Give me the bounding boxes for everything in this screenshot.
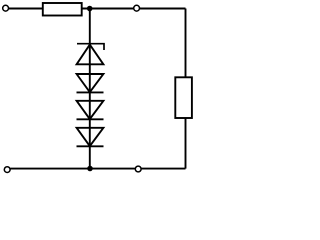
- diode D3 cathode bar: [77, 118, 104, 120]
- wire bottom rail: [10, 168, 185, 170]
- wire top-left terminal to resistor R1: [9, 8, 43, 10]
- terminal circle top-middle: [134, 5, 140, 11]
- terminal circle top-left: [3, 5, 9, 11]
- zener diode D1 triangle (pointing up): [77, 45, 104, 65]
- diode D4 triangle (pointing down): [77, 128, 104, 146]
- junction node top: [87, 6, 93, 12]
- diode D3 triangle (pointing down): [77, 101, 104, 119]
- diode D2 cathode bar: [77, 91, 104, 93]
- resistor R2 (right vertical): [175, 77, 192, 118]
- terminal circle bottom-middle: [135, 166, 141, 172]
- diode D4 cathode bar: [77, 145, 104, 147]
- wire R1 to top-right corner: [82, 8, 186, 10]
- wire R2 down to bottom-right corner: [185, 118, 187, 169]
- resistor R1 (top horizontal): [43, 3, 82, 16]
- terminal circle bottom-left: [4, 167, 10, 173]
- junction node bottom: [87, 166, 93, 172]
- diode D2 triangle (pointing down): [77, 74, 104, 92]
- wire right side down to resistor R2: [185, 9, 187, 78]
- zener diode D1 cathode bar with bent end: [77, 44, 104, 50]
- wire center vertical through diode chain: [89, 9, 91, 169]
